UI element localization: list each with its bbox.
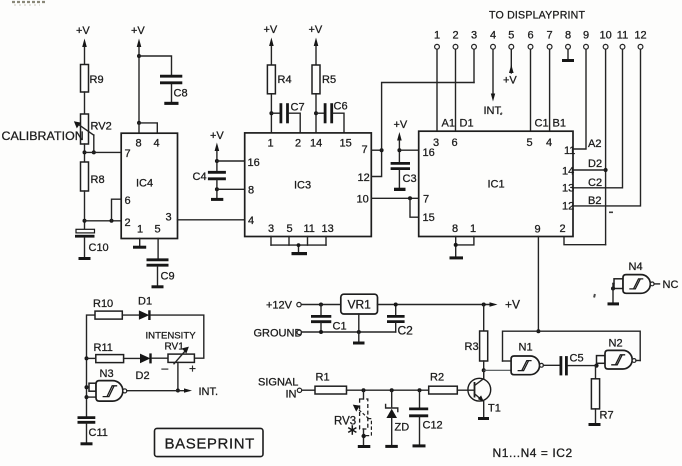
svg-text:+12V: +12V [266, 300, 293, 312]
svg-text:8: 8 [248, 185, 254, 197]
svg-text:16: 16 [248, 157, 260, 169]
ground under C3 [394, 188, 406, 191]
svg-text:+V: +V [264, 24, 278, 36]
svg-text:7: 7 [423, 194, 429, 206]
wire C4 node to IC3 pin 8 [217, 188, 245, 190]
svg-text:13: 13 [322, 223, 334, 235]
svg-text:4: 4 [248, 215, 254, 227]
svg-text:2: 2 [560, 223, 566, 235]
inverter N3 [85, 368, 127, 401]
polarity marks of RV1 [162, 361, 197, 376]
svg-text:SIGNAL: SIGNAL [258, 377, 298, 389]
wire R5 to IC3 pin 14 [314, 94, 318, 133]
ground under RV3 [358, 445, 371, 448]
junction R11 [85, 356, 89, 360]
svg-text:N2: N2 [609, 338, 623, 350]
optional trimmer RV3 (dashed) [334, 390, 371, 445]
svg-text:R11: R11 [94, 342, 113, 354]
svg-text:6: 6 [527, 30, 533, 42]
+V supply above R5 [309, 24, 323, 65]
transistor T1 [457, 370, 501, 417]
svg-text:C12: C12 [423, 420, 443, 432]
asterisk mark [348, 425, 356, 435]
IC IC1 [419, 131, 576, 236]
input terminal +12V [266, 300, 341, 312]
BASEPRINT box [155, 428, 264, 456]
trimmer RV1 [165, 342, 195, 364]
svg-text:C7: C7 [291, 102, 305, 114]
svg-text:ZD: ZD [395, 422, 410, 434]
svg-text:7: 7 [125, 148, 131, 160]
svg-text:RV2: RV2 [91, 121, 112, 133]
capacitor C2 [387, 305, 413, 338]
voltage regulator VR1 [341, 294, 378, 314]
svg-text:6: 6 [452, 137, 458, 149]
wire IC1 pin 14 to node D2 [573, 169, 606, 171]
resistor R5 [312, 65, 336, 94]
wire terminal 12 to IC1 pin 12 [573, 49, 641, 206]
wire C4 node to IC3 pin 16 [217, 160, 245, 162]
svg-text:15: 15 [423, 212, 435, 224]
svg-text:4: 4 [546, 137, 552, 149]
svg-text:C10: C10 [89, 242, 109, 254]
ground under IC3 [292, 252, 308, 255]
svg-text:8: 8 [565, 30, 571, 42]
scan artifact comma near N4 [593, 294, 596, 298]
IC1 pin 9 wire down to feedback node [536, 237, 540, 334]
svg-text:C1: C1 [333, 321, 347, 333]
svg-text:11: 11 [617, 30, 628, 42]
+V supply above C3 [394, 119, 408, 162]
svg-text:VR1: VR1 [348, 298, 372, 312]
wire to capacitor C8 [139, 56, 172, 74]
svg-text:R3: R3 [465, 341, 479, 353]
+V rail from VR1 output [378, 298, 521, 312]
wire terminal 7 to IC1 pin 4 [549, 49, 551, 131]
resistor R9 [81, 65, 104, 93]
svg-text:13: 13 [562, 183, 574, 195]
svg-text:C8: C8 [174, 88, 188, 100]
lower-left rail node wire [87, 315, 96, 416]
scan artifact top-left speckle bar [12, 1, 46, 3]
+V supply above R4 [264, 24, 278, 65]
svg-text:15: 15 [340, 138, 352, 150]
svg-text:N3: N3 [100, 368, 114, 380]
VR1 ground pin [353, 314, 365, 345]
svg-text:C6: C6 [334, 101, 348, 113]
svg-text:12: 12 [634, 30, 646, 42]
RV1 wiper wire down to INT line [176, 362, 180, 392]
svg-text:11: 11 [564, 145, 575, 157]
svg-text:INT.: INT. [484, 105, 504, 117]
svg-text:9: 9 [535, 224, 541, 236]
wire terminal 9 to IC1 pin 11 [573, 49, 586, 149]
svg-text:R7: R7 [600, 410, 614, 422]
svg-text:R10: R10 [93, 298, 113, 310]
svg-text:5: 5 [287, 223, 293, 235]
svg-text:7: 7 [362, 144, 368, 156]
node C5 R7 N2 input [594, 364, 598, 368]
wire RV2 to R8 with junctions [83, 144, 96, 162]
svg-text:4: 4 [154, 138, 160, 150]
svg-text:10: 10 [357, 194, 369, 206]
svg-text:5: 5 [155, 224, 161, 236]
svg-text:12: 12 [358, 172, 370, 184]
svg-text:R2: R2 [430, 372, 444, 384]
capacitor C12 [409, 390, 443, 444]
svg-text:INT.: INT. [199, 386, 219, 398]
capacitor C8 [160, 76, 188, 102]
svg-text:C11: C11 [89, 427, 108, 439]
wire terminal 4 to INT arrow [484, 49, 504, 117]
svg-text:TO DISPLAYPRINT: TO DISPLAYPRINT [489, 10, 586, 22]
svg-text:8: 8 [136, 138, 142, 150]
inverter N4 [614, 261, 660, 293]
ground under ZD [385, 445, 398, 448]
wire D1 loop to RV1 plus end [151, 315, 204, 358]
svg-text:C9: C9 [161, 271, 175, 283]
svg-text:GROUND: GROUND [254, 328, 303, 340]
svg-text:1: 1 [470, 223, 476, 235]
svg-text:+V: +V [210, 130, 224, 142]
svg-text:R8: R8 [91, 174, 105, 186]
wire N3 output to INT arrow [127, 386, 218, 398]
svg-text:IC3: IC3 [294, 180, 311, 192]
input terminal GROUND [254, 328, 396, 340]
svg-text:5: 5 [527, 137, 533, 149]
svg-text:R1: R1 [316, 372, 330, 384]
capacitor C6 [316, 101, 348, 133]
svg-text:4: 4 [490, 30, 496, 42]
svg-text:12: 12 [562, 201, 574, 213]
svg-text:11: 11 [304, 223, 315, 235]
wire D2 to RV1 [152, 357, 168, 359]
svg-text:IN: IN [286, 389, 297, 401]
svg-text:C1: C1 [535, 118, 549, 130]
trimmer RV2 [74, 114, 112, 152]
capacitor C9 [147, 260, 175, 286]
wire terminal 6 to IC1 pin 5 [530, 49, 532, 131]
inverter N2 [597, 338, 641, 370]
svg-text:10: 10 [599, 30, 611, 42]
svg-text:+V: +V [76, 25, 90, 37]
svg-text:D2: D2 [136, 370, 150, 382]
svg-text:2: 2 [125, 217, 131, 229]
svg-text:D1: D1 [138, 296, 152, 308]
svg-text:NC: NC [663, 279, 679, 291]
svg-text:+V: +V [394, 119, 408, 131]
svg-text:C3: C3 [403, 173, 417, 185]
wire R11 to D2 [124, 357, 140, 359]
svg-text:CALIBRATION: CALIBRATION [2, 129, 84, 143]
capacitor C11 [78, 418, 108, 443]
capacitor C3 [391, 163, 417, 187]
IC IC3 [245, 133, 372, 237]
svg-text:9: 9 [583, 30, 589, 42]
svg-text:16: 16 [423, 147, 435, 159]
IC3 bottom ground bus pins 3 5 11 13 [271, 237, 326, 253]
wire R1 to R2 with junction nodes [347, 388, 429, 392]
svg-text:INTENSITY: INTENSITY [146, 331, 197, 342]
wire R10 to D1 [122, 314, 139, 316]
wire terminal 11 to IC1 pin 13 [573, 49, 623, 188]
capacitor C5 [543, 353, 596, 376]
resistor R2 [429, 372, 458, 395]
svg-text:C4: C4 [193, 171, 207, 183]
ground under R7 [589, 423, 601, 426]
svg-text:B1: B1 [553, 118, 566, 130]
svg-text:D1: D1 [460, 118, 474, 130]
svg-text:RV1: RV1 [165, 342, 185, 353]
svg-text:T1: T1 [488, 403, 501, 415]
terminal circles row [435, 44, 643, 49]
svg-text:+V: +V [309, 24, 323, 36]
bus labels A1 D1 C1 B1 [442, 118, 566, 130]
IC4 pin 3 wire to IC3 pin 4 [178, 219, 245, 221]
svg-text:1: 1 [434, 30, 440, 42]
ground under T1 [478, 417, 489, 420]
IC4 power bracket pins 8 and 4 [137, 121, 157, 133]
capacitor C4 [193, 171, 226, 198]
wire node to IC4 pin 2 [85, 219, 122, 223]
svg-text:5: 5 [508, 30, 514, 42]
resistor R4 [267, 65, 291, 94]
wire C3 node to IC1 pin 16 [399, 149, 418, 151]
wire R9 to RV2 [84, 92, 86, 114]
ground under C11 [81, 442, 93, 445]
svg-text:R5: R5 [322, 74, 336, 86]
svg-text:N1...N4 = IC2: N1...N4 = IC2 [493, 446, 573, 460]
svg-text:N1: N1 [519, 342, 533, 354]
IC4 pin 1 ground [133, 239, 146, 249]
inverter N1 [511, 342, 543, 375]
IC4 pins 6-2 bracket [112, 199, 122, 221]
svg-text:R4: R4 [278, 74, 292, 86]
+V supply symbol above R9 [76, 25, 90, 65]
svg-text:1: 1 [137, 224, 143, 236]
svg-text:6: 6 [125, 195, 131, 207]
resistor R8 [81, 162, 105, 191]
svg-text:C2: C2 [588, 177, 602, 189]
wire feedback into N1 upper input [503, 360, 512, 362]
svg-text:+V: +V [505, 298, 520, 312]
svg-text:2: 2 [295, 138, 301, 150]
svg-text:N4: N4 [629, 261, 643, 273]
svg-text:R9: R9 [90, 74, 104, 86]
ground under C9 [152, 285, 164, 288]
zener diode ZD [386, 390, 410, 445]
svg-text:+V: +V [503, 75, 517, 87]
resistor R1 [315, 372, 347, 395]
scan artifact dot left of C1 label [500, 113, 502, 115]
wire terminal 5 to +V arrow [503, 49, 517, 86]
wire terminal 1 to IC1 pin 3 [436, 49, 438, 131]
diode D1 [138, 296, 152, 321]
svg-text:1: 1 [268, 138, 274, 150]
IC4 pin 5 wire to C9 [157, 239, 159, 259]
svg-text:–: – [162, 361, 169, 375]
ground under C10 [79, 257, 91, 260]
wire terminal 8 to ground [562, 49, 574, 62]
wire terminal 2 to IC1 pin 6 [455, 49, 457, 131]
svg-text:3: 3 [471, 30, 477, 42]
svg-text:+: + [189, 362, 196, 376]
svg-text:8: 8 [452, 223, 458, 235]
capacitor C7 [271, 102, 304, 133]
wire node to IC4 pin 7 [85, 151, 122, 153]
ground under C8 [164, 102, 178, 105]
capacitor C1 [311, 305, 347, 333]
wire T1 collector node to N1 input [484, 369, 511, 371]
+V supply symbol above C4 [210, 130, 224, 171]
IC3 pin 10 wire to IC1 pin 7 [371, 196, 418, 200]
IC1 pins 7-15 bracket [410, 198, 419, 217]
capacitor C10 electrolytic [75, 229, 109, 257]
svg-text:3: 3 [268, 223, 274, 235]
IC3 pins 7-12 bracket and riser to terminal 3 [371, 83, 474, 177]
ground under C12 [413, 444, 426, 447]
wire R4 to IC3 pin 1 [269, 94, 273, 133]
svg-text:7: 7 [547, 30, 553, 42]
terminal numbers 1-12 [434, 30, 647, 42]
svg-text:+V: +V [131, 25, 145, 37]
resistor R7 [591, 366, 613, 423]
svg-text:D2: D2 [588, 158, 602, 170]
scan artifact dash right of B2 [609, 212, 613, 214]
+V supply symbol above C8 line [131, 25, 145, 123]
svg-text:IC4: IC4 [136, 178, 153, 190]
diode D2 [136, 353, 151, 382]
resistor R10 [93, 298, 122, 319]
svg-text:A2: A2 [588, 138, 601, 150]
bus labels A2 D2 C2 B2 [588, 138, 602, 207]
svg-text:C5: C5 [570, 353, 584, 365]
IC1 pins 8-1 ground bracket [450, 237, 474, 260]
wire R8 down to C10 [83, 191, 87, 229]
resistor R11 [87, 342, 124, 363]
op-amp IC4 [121, 133, 177, 238]
input terminal SIGNAL IN [258, 377, 315, 401]
svg-text:IC1: IC1 [488, 179, 505, 191]
svg-text:C2: C2 [398, 324, 414, 338]
svg-text:3: 3 [166, 212, 172, 224]
feedback wire N2 output to N1 input [503, 331, 641, 361]
svg-text:14: 14 [310, 138, 322, 150]
wire terminal 3 down to riser [473, 49, 475, 82]
svg-text:2: 2 [452, 30, 458, 42]
svg-text:14: 14 [562, 166, 574, 178]
resistor R3 [465, 305, 488, 379]
N4 input grounded [608, 284, 620, 306]
svg-text:A1: A1 [442, 118, 455, 130]
svg-text:BASEPRINT: BASEPRINT [165, 436, 255, 453]
ground under C4 [211, 198, 223, 201]
svg-text:B2: B2 [588, 195, 601, 207]
wire terminal 10 through D2 node down to IC1 pin 2 [564, 49, 608, 245]
